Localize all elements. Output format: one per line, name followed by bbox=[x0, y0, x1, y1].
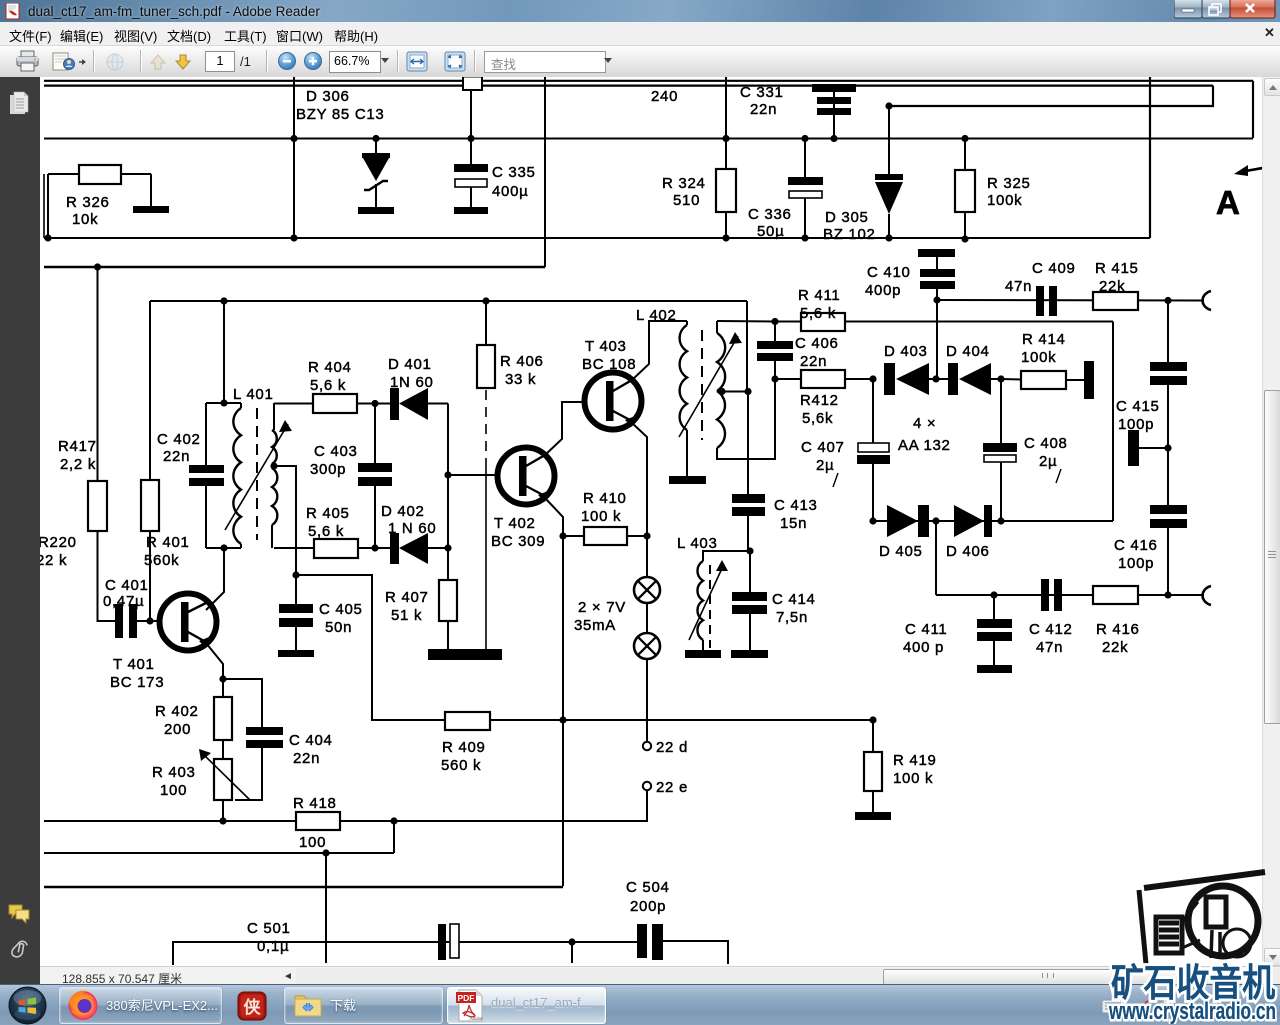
label C405 bbox=[319, 601, 363, 618]
core of L403 bbox=[709, 565, 711, 648]
svg-text:C 331: C 331 bbox=[740, 84, 784, 101]
wire x326 down bbox=[325, 853, 327, 963]
trimmer C502 bbox=[438, 924, 645, 960]
capacitor C401 bbox=[115, 604, 150, 638]
feedthrough terminal after R414 bbox=[1084, 361, 1094, 399]
transistor T403 bbox=[585, 373, 642, 430]
node tap of L401 bbox=[270, 462, 277, 469]
svg-text:47n: 47n bbox=[1005, 278, 1032, 295]
L402 tuning arrow bbox=[679, 332, 742, 437]
label C401 value bbox=[103, 593, 144, 610]
feedthrough terminal C415 bbox=[1128, 430, 1168, 466]
svg-text:R 416: R 416 bbox=[1096, 621, 1140, 638]
node R412 input bbox=[771, 375, 778, 382]
core of L401 bbox=[256, 408, 258, 540]
label C413 bbox=[774, 497, 818, 514]
wire AGC bus y821 bbox=[44, 820, 648, 822]
svg-text:2µ: 2µ bbox=[816, 457, 834, 474]
label 4x label bbox=[913, 415, 936, 432]
svg-text:BZ 102: BZ 102 bbox=[823, 226, 876, 243]
firefox button bbox=[59, 987, 222, 1024]
label C331 value bbox=[750, 101, 777, 118]
label L402 bbox=[636, 307, 676, 324]
wire right bus vertical x545 bbox=[544, 77, 546, 267]
wire collector of T403 to L402 bbox=[632, 321, 687, 380]
label T402 bbox=[494, 515, 536, 532]
label L403 bbox=[677, 535, 717, 552]
svg-text:R 324: R 324 bbox=[662, 175, 706, 192]
wire collector of T401 bbox=[206, 548, 224, 610]
svg-text:300p: 300p bbox=[310, 461, 346, 478]
wire R404 to D401 bbox=[357, 403, 391, 405]
wire tank top bbox=[206, 402, 241, 404]
svg-text:R220: R220 bbox=[40, 534, 77, 551]
svg-text:R 405: R 405 bbox=[306, 505, 350, 522]
diode D405 bbox=[887, 505, 936, 537]
label C336 value bbox=[757, 223, 784, 240]
wire ground bus y238 bbox=[44, 237, 1150, 239]
variable resistor R403 bbox=[199, 749, 250, 821]
label R412 bbox=[800, 392, 839, 409]
label R402 bbox=[155, 703, 199, 720]
label C336 bbox=[748, 206, 792, 223]
wire detector box right edge bbox=[1112, 322, 1114, 522]
label C412 value bbox=[1036, 639, 1063, 656]
wire vertical x1150 bbox=[1149, 77, 1151, 235]
paperclip icon bbox=[10, 939, 30, 963]
label D306 part bbox=[296, 106, 384, 123]
svg-text:C 411: C 411 bbox=[905, 621, 947, 638]
wire stub below y942 bbox=[571, 942, 573, 963]
svg-text:R 418: R 418 bbox=[293, 795, 337, 812]
label C413 value bbox=[780, 515, 807, 532]
svg-text:C 408: C 408 bbox=[1024, 435, 1068, 452]
label D405 bbox=[879, 543, 923, 560]
pages icon bbox=[8, 91, 32, 117]
wire R406 to ground bar bbox=[485, 462, 487, 650]
node L403 bbox=[746, 547, 753, 554]
share icon bbox=[52, 50, 90, 74]
ground for D306 bbox=[358, 207, 394, 214]
resistor R407 bbox=[439, 548, 457, 650]
resistor R326 bbox=[44, 165, 151, 242]
inductor L402 secondary bbox=[717, 321, 775, 459]
capacitor C411 bbox=[977, 595, 1012, 666]
label T401 bbox=[113, 656, 155, 673]
printer bbox=[15, 50, 41, 74]
label D406 bbox=[946, 543, 990, 560]
capacitor C406 bbox=[757, 321, 793, 379]
label R416 value bbox=[1102, 639, 1128, 656]
svg-text:400 p: 400 p bbox=[903, 639, 944, 656]
label C416 bbox=[1114, 537, 1158, 554]
label D404 bbox=[946, 343, 990, 360]
label C410 value bbox=[865, 282, 901, 299]
zoom buttons bbox=[277, 51, 323, 71]
ground for C335 bbox=[454, 207, 488, 214]
wire top rail outer corner bbox=[1252, 81, 1254, 138]
nav arrows bbox=[148, 51, 198, 73]
wire tap to C405 bbox=[274, 466, 296, 575]
label R419 bbox=[893, 752, 937, 769]
label D402 bbox=[381, 503, 425, 520]
capacitor C335 bbox=[454, 90, 488, 207]
svg-text:7,5n: 7,5n bbox=[776, 609, 808, 626]
svg-text:22n: 22n bbox=[293, 750, 320, 767]
resistor R417 bbox=[88, 481, 107, 531]
label R412 value bbox=[802, 410, 833, 427]
node y942 bbox=[568, 938, 575, 945]
label R324 bbox=[662, 175, 706, 192]
wire box top y301 bbox=[150, 300, 747, 302]
svg-text:100k: 100k bbox=[987, 192, 1022, 209]
svg-text:100 k: 100 k bbox=[893, 770, 933, 787]
inductor L403 bbox=[697, 551, 750, 651]
zener diode D305 bbox=[875, 102, 903, 241]
horizontal scrollbar bbox=[296, 968, 1280, 984]
label R220 value bbox=[36, 552, 67, 569]
wire base node down to D402 bbox=[447, 475, 449, 548]
svg-text:R 401: R 401 bbox=[146, 534, 190, 551]
svg-text:BC 173: BC 173 bbox=[110, 674, 164, 691]
capacitor C409 bbox=[1036, 286, 1057, 316]
L403 tuning arrow bbox=[689, 560, 728, 640]
svg-text:D 404: D 404 bbox=[946, 343, 990, 360]
svg-text:R417: R417 bbox=[58, 438, 97, 455]
svg-text:1N 60: 1N 60 bbox=[390, 374, 434, 391]
wire bus y887 bbox=[44, 886, 563, 888]
label R326 bbox=[66, 194, 110, 211]
wire audio output row y595 bbox=[936, 594, 1204, 596]
svg-text:50µ: 50µ bbox=[757, 223, 784, 240]
label C331 bbox=[740, 84, 784, 101]
capacitor C331 bbox=[812, 84, 856, 142]
label R324 value bbox=[673, 192, 700, 209]
wire R405 to D402 bbox=[358, 547, 391, 549]
wire tank bottom bbox=[206, 547, 241, 549]
svg-text:22k: 22k bbox=[1099, 278, 1125, 295]
lamp 1 bbox=[646, 536, 648, 577]
diode D403 bbox=[884, 363, 936, 395]
svg-text:C 335: C 335 bbox=[492, 164, 536, 181]
svg-text:22 e: 22 e bbox=[656, 779, 688, 796]
label C415 bbox=[1116, 398, 1160, 415]
label R404 value bbox=[310, 377, 346, 394]
wire base of T401 bbox=[150, 620, 160, 622]
svg-text:R 402: R 402 bbox=[155, 703, 199, 720]
label C407 value bbox=[816, 457, 834, 474]
resistor R419 bbox=[864, 720, 882, 813]
label C408 value bbox=[1039, 453, 1057, 470]
label R419 value bbox=[893, 770, 933, 787]
resistor R411 bbox=[801, 313, 845, 331]
label L401 bbox=[233, 386, 273, 403]
resistor R416 bbox=[1093, 586, 1138, 604]
svg-text:D 406: D 406 bbox=[946, 543, 990, 560]
L401 tuning arrow bbox=[225, 420, 292, 530]
inductor L401 primary bbox=[233, 403, 241, 548]
label C409 bbox=[1032, 260, 1076, 277]
wire 240V bus y138 bbox=[44, 138, 1253, 140]
svg-text:C 401: C 401 bbox=[105, 577, 149, 594]
watermark bbox=[1040, 860, 1280, 1024]
svg-text:5,6 k: 5,6 k bbox=[308, 523, 344, 540]
svg-text:5,6k: 5,6k bbox=[802, 410, 833, 427]
label R401 bbox=[146, 534, 190, 551]
ground for C411 bbox=[977, 665, 1012, 673]
svg-text:C 402: C 402 bbox=[157, 431, 201, 448]
wire R404 row bbox=[274, 403, 313, 405]
label C414 bbox=[772, 591, 816, 608]
label C409 value bbox=[1005, 278, 1032, 295]
svg-text:PDF: PDF bbox=[458, 993, 475, 1003]
svg-text:R 411: R 411 bbox=[798, 287, 840, 304]
svg-text:22k: 22k bbox=[1102, 639, 1128, 656]
svg-text:R 325: R 325 bbox=[987, 175, 1031, 192]
label R414 bbox=[1022, 331, 1066, 348]
capacitor C405 bbox=[279, 575, 313, 650]
wire detector return y720 bbox=[372, 719, 873, 721]
wire emitter of T401 bbox=[206, 643, 223, 679]
label R409 bbox=[442, 739, 486, 756]
label R406 bbox=[500, 353, 544, 370]
svg-text:T 403: T 403 bbox=[585, 338, 627, 355]
label C411 bbox=[905, 621, 947, 638]
label D403 bbox=[884, 343, 928, 360]
lamp 2 bbox=[646, 603, 648, 633]
output connector 1 bbox=[1203, 291, 1211, 310]
wire R405 row bbox=[274, 547, 314, 549]
label 22e bbox=[656, 779, 688, 796]
ground bar shared bbox=[428, 649, 502, 660]
svg-text:D 306: D 306 bbox=[306, 88, 350, 105]
wire 22e to bottom bus bbox=[646, 790, 648, 821]
label R411 bbox=[798, 287, 840, 304]
label C504 bbox=[626, 879, 670, 896]
svg-text:240: 240 bbox=[651, 88, 678, 105]
label D306 bbox=[306, 88, 350, 105]
wire emitter bus x563 bbox=[562, 536, 564, 886]
svg-text:C 406: C 406 bbox=[795, 335, 839, 352]
svg-text:C 336: C 336 bbox=[748, 206, 792, 223]
dashed wire below R406 bbox=[485, 390, 487, 462]
svg-text:C 415: C 415 bbox=[1116, 398, 1160, 415]
svg-text:100p: 100p bbox=[1118, 555, 1154, 572]
svg-text:10k: 10k bbox=[72, 211, 98, 228]
svg-text:AA 132: AA 132 bbox=[898, 437, 951, 454]
wire top rail bbox=[44, 80, 1253, 82]
label 22d bbox=[656, 739, 688, 756]
svg-text:400p: 400p bbox=[865, 282, 901, 299]
label R403 bbox=[152, 764, 196, 781]
resistor R418 bbox=[296, 812, 340, 830]
svg-text:100: 100 bbox=[299, 834, 326, 851]
label R417 bbox=[58, 438, 97, 455]
wire left page edge bbox=[43, 174, 45, 238]
wire bus y853 bbox=[44, 852, 394, 854]
wire rail down x747 bbox=[746, 301, 748, 391]
node C411 bbox=[990, 591, 997, 598]
svg-text:C 403: C 403 bbox=[314, 443, 358, 460]
resistor R409 bbox=[445, 712, 490, 730]
node diode bridge right bbox=[997, 375, 1004, 382]
label R325 bbox=[987, 175, 1031, 192]
label C335 value bbox=[492, 183, 528, 200]
label C412 bbox=[1029, 621, 1073, 638]
diode D401 bbox=[390, 388, 448, 420]
wire x747 to C413 bbox=[747, 391, 749, 495]
diode D406 bbox=[936, 505, 1001, 537]
wire tank feed x224 bbox=[223, 301, 225, 403]
wire detector box bottom y521 bbox=[873, 520, 1113, 522]
svg-text:2,2 k: 2,2 k bbox=[60, 456, 96, 473]
label R325 value bbox=[987, 192, 1022, 209]
label C415 value bbox=[1118, 416, 1154, 433]
crystalradio logo sketch bbox=[1139, 872, 1265, 964]
collaborate (disabled) bbox=[103, 50, 129, 74]
svg-text:2µ: 2µ bbox=[1039, 453, 1057, 470]
svg-text:C 413: C 413 bbox=[774, 497, 818, 514]
capacitor C416 bbox=[1150, 505, 1187, 595]
node R419 bbox=[869, 716, 876, 723]
node output 1 bbox=[1164, 297, 1171, 304]
svg-text:Adobe: Adobe bbox=[469, 1016, 483, 1021]
svg-text:R 407: R 407 bbox=[385, 589, 429, 606]
svg-text:D 402: D 402 bbox=[381, 503, 425, 520]
resistor R401 bbox=[141, 301, 159, 621]
svg-text:5,6 k: 5,6 k bbox=[800, 305, 836, 322]
label lamps current bbox=[574, 617, 616, 634]
label C403 value bbox=[310, 461, 346, 478]
capacitor C410 bbox=[918, 249, 955, 300]
svg-text:BZY 85 C13: BZY 85 C13 bbox=[296, 106, 384, 123]
svg-text:51 k: 51 k bbox=[391, 607, 422, 624]
svg-text:R 415: R 415 bbox=[1095, 260, 1139, 277]
inductor L402 primary bbox=[680, 321, 687, 477]
arrow to A bbox=[1234, 165, 1274, 176]
label C402 value bbox=[163, 448, 190, 465]
capacitor C504 bbox=[637, 924, 728, 964]
wire R417 to C401 bbox=[98, 531, 117, 621]
label R405 bbox=[306, 505, 350, 522]
wire emitter of T403 bbox=[632, 423, 647, 536]
tray icons (mostly hidden behind watermark) bbox=[1100, 997, 1220, 1017]
svg-text:200: 200 bbox=[164, 721, 191, 738]
label R404 bbox=[308, 359, 352, 376]
node diode bottom mid bbox=[932, 517, 939, 524]
terminal 22d bbox=[643, 742, 651, 750]
label C501 bbox=[247, 920, 291, 937]
wire C410 down to diode node bbox=[936, 300, 938, 379]
ground for L403 bbox=[685, 650, 721, 658]
wire stub to y853 bbox=[393, 821, 395, 853]
inductor L401 secondary bbox=[272, 403, 277, 548]
wire C405 node to R409 bbox=[296, 575, 445, 720]
node C405 bbox=[292, 571, 299, 578]
label AA132 label bbox=[898, 437, 951, 454]
wire D401 down to T402 base node bbox=[447, 404, 449, 476]
svg-text:0,1µ: 0,1µ bbox=[257, 938, 289, 955]
label T401 part bbox=[110, 674, 164, 691]
wire top rail right step bbox=[889, 86, 1213, 106]
wire mid node down bbox=[935, 521, 937, 595]
svg-text:C 404: C 404 bbox=[289, 732, 333, 749]
resistor R415 bbox=[1093, 292, 1138, 310]
resistor R402 bbox=[214, 679, 232, 759]
svg-text:R 403: R 403 bbox=[152, 764, 196, 781]
fit icons bbox=[406, 50, 468, 74]
svg-text:www.crystalradio.cn: www.crystalradio.cn bbox=[1108, 998, 1276, 1024]
svg-text:C 405: C 405 bbox=[319, 601, 363, 618]
label C501 value bbox=[257, 938, 289, 955]
svg-text:100: 100 bbox=[160, 782, 187, 799]
svg-text:R 409: R 409 bbox=[442, 739, 486, 756]
label C416 value bbox=[1118, 555, 1154, 572]
label C403 bbox=[314, 443, 358, 460]
core of L402 bbox=[701, 330, 703, 440]
label T402 part bbox=[491, 533, 545, 550]
node C408 bottom bbox=[997, 517, 1004, 524]
svg-text:R 410: R 410 bbox=[583, 490, 627, 507]
label D305 part bbox=[823, 226, 876, 243]
resistor R404 bbox=[313, 394, 357, 413]
label C404 value bbox=[293, 750, 320, 767]
resistor R414 bbox=[1001, 371, 1084, 389]
svg-text:22n: 22n bbox=[750, 101, 777, 118]
resistor R325 bbox=[955, 135, 975, 243]
svg-text:C 412: C 412 bbox=[1029, 621, 1073, 638]
svg-text:22n: 22n bbox=[163, 448, 190, 465]
label R418 value bbox=[299, 834, 326, 851]
svg-text:D 305: D 305 bbox=[825, 209, 869, 226]
svg-text:BC 108: BC 108 bbox=[582, 356, 636, 373]
capacitor C415 bbox=[1150, 300, 1187, 506]
wire secondary top to R411 node bbox=[717, 320, 775, 323]
label C414 value bbox=[776, 609, 808, 626]
transistor T401 bbox=[160, 594, 217, 651]
svg-text:L 402: L 402 bbox=[636, 307, 676, 324]
svg-text:L 401: L 401 bbox=[233, 386, 273, 403]
wire emitter of T402 bbox=[545, 498, 563, 536]
label D401 part bbox=[390, 374, 434, 391]
capacitor C408 bbox=[983, 379, 1017, 521]
label C335 bbox=[492, 164, 536, 181]
capacitor C413 bbox=[732, 494, 765, 551]
label C406 bbox=[795, 335, 839, 352]
node base of T401 bbox=[146, 617, 153, 624]
wire tap to x747 bbox=[722, 391, 748, 393]
label R409 value bbox=[441, 757, 481, 774]
svg-text:R 406: R 406 bbox=[500, 353, 544, 370]
node C410 output bbox=[933, 296, 940, 303]
label R410 bbox=[583, 490, 627, 507]
svg-text:510: 510 bbox=[673, 192, 700, 209]
label R401 value bbox=[144, 552, 179, 569]
label R416 bbox=[1096, 621, 1140, 638]
capacitor C336 bbox=[788, 135, 823, 242]
label 240 label bbox=[651, 88, 678, 105]
diode D404 bbox=[936, 363, 1001, 395]
label C408 bbox=[1024, 435, 1068, 452]
resistor R405 bbox=[314, 539, 358, 558]
pdf button (active) bbox=[447, 987, 606, 1024]
resistor R410 bbox=[563, 527, 647, 545]
svg-text:15n: 15n bbox=[780, 515, 807, 532]
label C405 value bbox=[325, 619, 352, 636]
wire vertical x294 bbox=[293, 77, 295, 238]
svg-text:2 × 7V: 2 × 7V bbox=[578, 599, 626, 616]
svg-text:T 402: T 402 bbox=[494, 515, 536, 532]
